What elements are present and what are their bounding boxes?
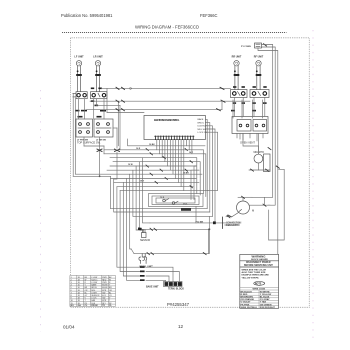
- broil element: [139, 254, 147, 264]
- svg-text:16 BR: 16 BR: [183, 173, 189, 175]
- wire RV2: [262, 47, 276, 205]
- left edge vertical wires: [73, 93, 110, 176]
- connector marks above boxes: [78, 116, 102, 118]
- black connectors on bundle wires: [140, 266, 145, 281]
- bus wire L3: [86, 109, 222, 111]
- svg-text:FAN MOTOR: FAN MOTOR: [226, 224, 240, 227]
- svg-text:MDL: MDL: [183, 204, 188, 206]
- wire RV1: [252, 45, 273, 198]
- svg-text:16 W: 16 W: [128, 164, 133, 166]
- relay 1: [163, 199, 169, 202]
- wire RV4b: [268, 210, 270, 240]
- switch SW3: [231, 90, 248, 98]
- motor tick: [239, 210, 242, 212]
- junction on bus L1: [130, 87, 132, 89]
- wires circles to switches left: [79, 99, 104, 119]
- svg-text:LF UNIT: LF UNIT: [74, 56, 84, 59]
- svg-text:BAKE: BAKE: [198, 118, 204, 121]
- surface unit RR: [234, 61, 239, 66]
- svg-text:OVEN VENT: OVEN VENT: [240, 141, 255, 145]
- switch pin marks below: [76, 100, 267, 111]
- switch box LF2: [76, 119, 93, 137]
- svg-text:01/04: 01/04: [63, 325, 75, 330]
- svg-text:NOTE: NOTE: [255, 283, 262, 285]
- connector on wire y229: [150, 228, 157, 230]
- svg-text:WIRES ARE THE COLOR: WIRES ARE THE COLOR: [242, 268, 267, 271]
- header underline dashed: [62, 32, 287, 34]
- svg-text:W/BK WHT/BLK: W/BK WHT/BLK: [241, 307, 258, 309]
- svg-text:WARNING: WARNING: [252, 254, 267, 258]
- limiter LF: [76, 66, 82, 92]
- wire left V2: [74, 99, 76, 175]
- connector pair on bus L1: [116, 87, 125, 89]
- svg-text:P#4255347: P#4255347: [167, 302, 190, 307]
- wire left H at 176: [73, 175, 110, 177]
- svg-text:BK BLACK: BK BLACK: [241, 290, 253, 293]
- svg-text:BAKE: BAKE: [91, 284, 97, 287]
- svg-text:GY GRAY: GY GRAY: [260, 298, 270, 301]
- wires clock area: [243, 134, 270, 171]
- svg-text:ALSO THEY THEIR SIZE: ALSO THEY THEIR SIZE: [242, 271, 266, 274]
- terminal block: [164, 282, 183, 287]
- wires from left boxes down to connectors: [84, 128, 117, 179]
- wire RV4: [269, 169, 285, 240]
- svg-text:FEF366C: FEF366C: [200, 13, 218, 18]
- svg-text:FROM: FROM: [91, 305, 97, 307]
- wire RV3: [258, 48, 278, 254]
- svg-text:16 R: 16 R: [136, 148, 141, 150]
- junction dot y229: [208, 228, 210, 230]
- svg-text:TO: TO: [102, 305, 105, 307]
- svg-text:WIRING DIAGRAM - FEF366CCD: WIRING DIAGRAM - FEF366CCD: [135, 25, 199, 30]
- connector clock left: [251, 169, 254, 171]
- connector diamond on wire y229 left end: [138, 227, 142, 230]
- junction on 176 wire: [99, 175, 101, 177]
- svg-text:R/W RED/WHT: R/W RED/WHT: [260, 307, 276, 309]
- aux tall box: [264, 154, 271, 172]
- svg-text:DISCONNECT POWER: DISCONNECT POWER: [246, 262, 271, 264]
- svg-text:RF UNIT: RF UNIT: [254, 56, 264, 59]
- connector on wire x117: [115, 149, 120, 152]
- svg-text:BEFORE SERVICING UNIT: BEFORE SERVICING UNIT: [244, 265, 273, 267]
- connector on bus L3 right: [217, 109, 221, 111]
- wire gauge labels on fan: [128, 144, 194, 182]
- svg-text:P1 CONN: P1 CONN: [241, 46, 251, 48]
- switch pin marks above: [91, 86, 267, 89]
- oven light switch box: [213, 221, 216, 224]
- connector right of component: [264, 44, 267, 46]
- top right small component: [255, 43, 262, 48]
- surface unit RF: [256, 61, 261, 66]
- motor circle: [237, 201, 250, 214]
- connector on bus L1 right: [220, 87, 224, 89]
- connector pair on broil wire: [147, 253, 206, 255]
- EOC comb bar: [155, 135, 195, 137]
- faint scan perforation dots right: [312, 30, 314, 338]
- svg-text:MDL MTR: MDL MTR: [254, 152, 265, 154]
- svg-text:TERM. BLOCK: TERM. BLOCK: [168, 289, 184, 291]
- svg-text:Publication No. 5995401981: Publication No. 5995401981: [61, 13, 113, 18]
- EOC box: [144, 116, 205, 140]
- bus wire L1: [102, 87, 231, 89]
- svg-text:TOP SURFACE SW.: TOP SURFACE SW.: [77, 141, 101, 145]
- svg-text:DLB: DLB: [160, 197, 165, 199]
- connector at 146: [268, 148, 271, 150]
- svg-text:BAKE UNIT: BAKE UNIT: [146, 285, 159, 288]
- connector on wire x100: [97, 149, 102, 152]
- bus wire L2b short: [96, 104, 120, 106]
- limiter RF: [256, 66, 262, 90]
- EOC right labels: [198, 118, 209, 134]
- wires from right cluster up to switches: [234, 98, 264, 155]
- surface unit LR: [95, 61, 100, 66]
- connector clock right: [266, 169, 269, 171]
- svg-text:T TAN: T TAN: [260, 301, 267, 304]
- svg-text:16 BK: 16 BK: [149, 144, 155, 146]
- switch SW4: [250, 90, 269, 98]
- limiter LR: [95, 66, 101, 92]
- fan right wrap downs: [191, 150, 206, 200]
- svg-text:EXAMPLE WIRES ARE ARE: EXAMPLE WIRES ARE ARE: [242, 274, 270, 277]
- switch SW2: [91, 92, 107, 99]
- surface unit LF: [76, 61, 81, 66]
- svg-text:SHOCK HAZARD: SHOCK HAZARD: [251, 258, 268, 261]
- svg-text:CONVECTION: CONVECTION: [226, 222, 242, 224]
- warning paragraph: [242, 268, 270, 279]
- svg-text:RR UNIT: RR UNIT: [232, 56, 242, 59]
- right infinite switch group box: [232, 117, 268, 134]
- svg-text:P12 BK: P12 BK: [196, 221, 204, 223]
- switch box LR2: [94, 119, 113, 137]
- svg-text:NO: NO: [71, 305, 75, 307]
- note oval: [254, 282, 265, 286]
- connector glyphs on fan wires: [146, 148, 193, 187]
- right long verticals: [252, 45, 284, 254]
- connector pair on bus L2: [116, 100, 125, 102]
- wires into terminal block: [146, 267, 179, 281]
- stub from L3 down: [221, 101, 223, 110]
- connector motor right: [263, 204, 266, 206]
- switch SW1: [73, 92, 87, 99]
- verticals to fan: [117, 101, 119, 146]
- svg-text:SENSOR: SENSOR: [140, 239, 150, 242]
- svg-text:GA: GA: [78, 304, 82, 307]
- EOC pin drop wires: [157, 140, 192, 191]
- connector on RV3 end: [276, 166, 279, 168]
- bus wire L2: [90, 100, 250, 102]
- svg-text:OR ORANGE: OR ORANGE: [241, 298, 255, 301]
- EOC right exit wires wrap down: [205, 119, 217, 221]
- svg-text:FAN: FAN: [91, 299, 95, 302]
- limiter RR: [234, 66, 240, 90]
- plug divider bar: [221, 217, 223, 229]
- relay 2: [172, 201, 178, 204]
- table cell texture: [71, 277, 113, 305]
- diagram frame: [71, 38, 310, 308]
- EOC pin comb: [155, 136, 193, 140]
- connector motor top: [242, 196, 245, 198]
- svg-text:M: M: [252, 209, 254, 213]
- svg-text:BROIL: BROIL: [198, 122, 205, 124]
- dark relay coil: [181, 208, 191, 211]
- wire from relay cluster down: [196, 207, 209, 230]
- EOC top feed wires: [107, 88, 144, 112]
- connector pair on bus L3: [116, 109, 125, 111]
- wire left V1: [72, 93, 74, 176]
- ticks under right group: [237, 134, 263, 142]
- svg-text:12: 12: [178, 324, 184, 329]
- svg-text:YELLOW STRIPE.: YELLOW STRIPE.: [242, 277, 260, 279]
- connector motor left: [227, 216, 230, 218]
- table bottom row bold: [71, 304, 113, 307]
- connector above wire: [228, 215, 232, 217]
- svg-text:ELECTRONIC OVEN CONTROL: ELECTRONIC OVEN CONTROL: [154, 119, 180, 122]
- color table: [240, 288, 279, 309]
- horizontals: [70, 277, 116, 279]
- broil wire across: [131, 229, 209, 253]
- verticals: [76, 276, 78, 307]
- wire RV5 short verticals near motor: [263, 197, 265, 205]
- wires right circles to switches: [233, 100, 263, 118]
- clock circle: [254, 154, 263, 163]
- svg-text:14 Y: 14 Y: [189, 151, 194, 154]
- faint scan perforation dots left: [40, 90, 42, 332]
- svg-text:LR UNIT: LR UNIT: [93, 56, 103, 59]
- motor top wire: [226, 197, 270, 216]
- connector on bus L2 right: [221, 100, 225, 102]
